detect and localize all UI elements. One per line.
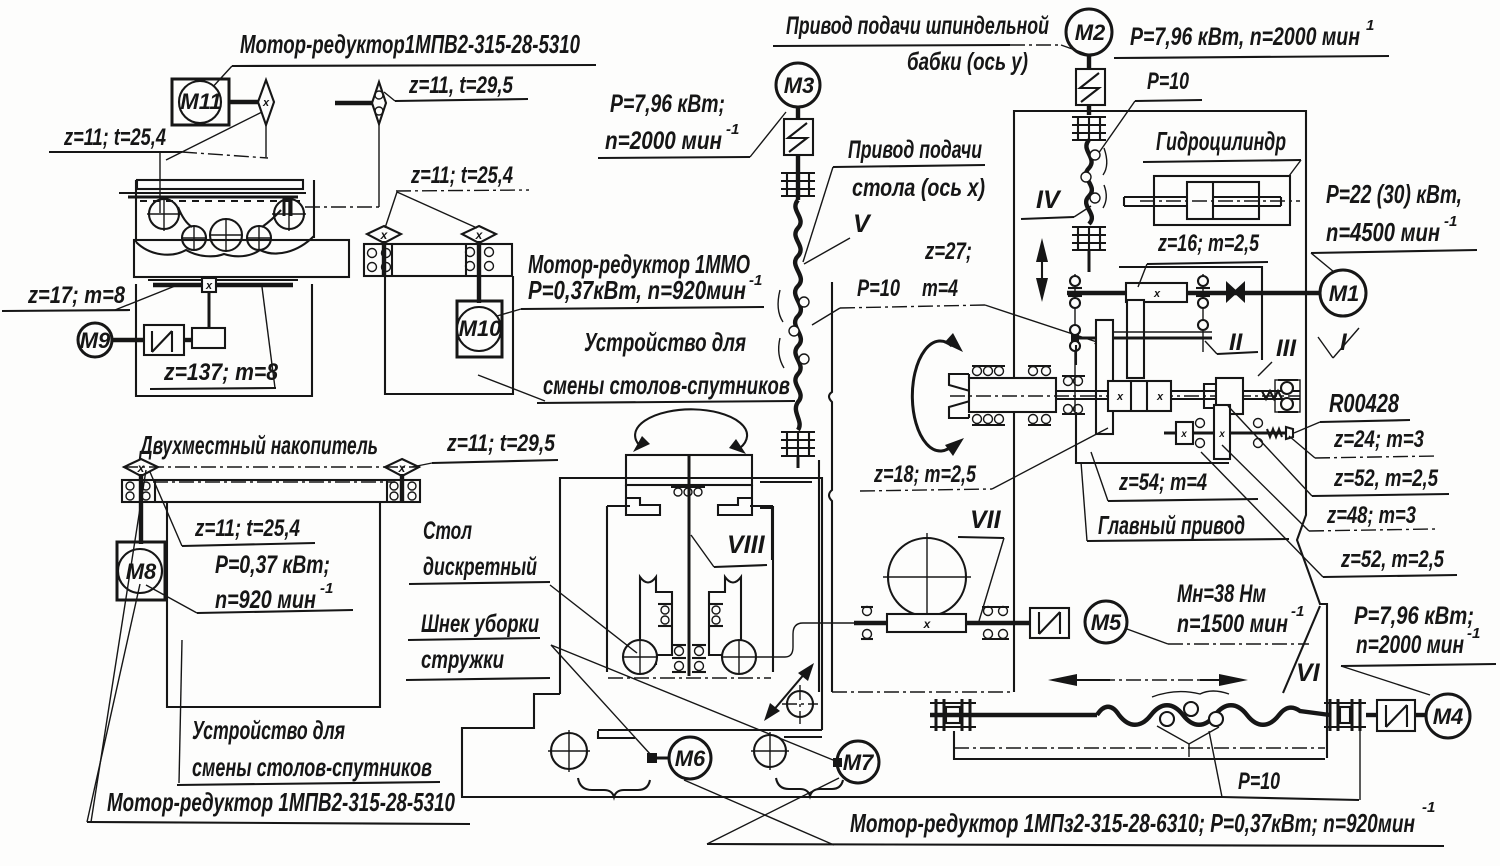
swivel circle with arrow xyxy=(764,663,818,724)
svg-text:z=137; m=8: z=137; m=8 xyxy=(163,359,278,386)
svg-text:1: 1 xyxy=(1366,17,1374,34)
bevel gear pair on shaft I xyxy=(1226,281,1245,303)
underline + leader into cylinder xyxy=(1143,160,1301,162)
svg-text:Р=10: Р=10 xyxy=(1238,768,1280,795)
underline + leader xyxy=(1323,575,1457,577)
underline M2 label xyxy=(1114,56,1389,58)
svg-text:n=2000 мин: n=2000 мин xyxy=(1356,631,1464,659)
underline + leader xyxy=(1108,499,1258,501)
underline xyxy=(177,782,440,785)
svg-text:М4: М4 xyxy=(1433,704,1464,729)
spindle front bearings bottom xyxy=(972,415,1051,426)
svg-text:Мотор-редуктор 1МПВ2-315-28-53: Мотор-редуктор 1МПВ2-315-28-5310 xyxy=(107,787,455,817)
svg-text:-1: -1 xyxy=(1422,799,1435,816)
svg-text:Р=0,37кВт, n=920мин: Р=0,37кВт, n=920мин xyxy=(528,275,746,305)
housing wall with brace (left of spindle) xyxy=(829,282,832,692)
ballscrew IV (wavy) xyxy=(1086,140,1092,224)
accumulator rail xyxy=(122,480,420,502)
pulley P5 (flat diamond) xyxy=(124,459,158,476)
wire right side vertical xyxy=(1359,702,1361,800)
bearing circles shaft III left xyxy=(1196,419,1205,448)
underline + leader xyxy=(1320,420,1410,422)
svg-text:Главный привод: Главный привод xyxy=(1098,510,1245,540)
pallet inner housing xyxy=(607,506,773,672)
ballscrew VI wavy part xyxy=(1097,705,1330,725)
motor M6 xyxy=(669,737,711,779)
leader M7 to bottom text xyxy=(707,778,839,844)
spindle shaft xyxy=(1056,390,1300,392)
bed under screw VI bottom xyxy=(954,731,1325,759)
svg-text:М2: М2 xyxy=(1075,20,1106,45)
auger circle left xyxy=(548,730,590,772)
left pallet wheel xyxy=(623,640,657,674)
svg-text:Р=7,96 кВт;: Р=7,96 кВт; xyxy=(1354,602,1474,630)
svg-text:x: x xyxy=(398,461,407,475)
wire from right wheel to shaft VII xyxy=(756,623,854,657)
svg-text:z=52, m=2,5: z=52, m=2,5 xyxy=(1333,465,1438,492)
underline of top label xyxy=(232,65,596,66)
ballscrew VI shaft straight part xyxy=(930,713,1097,717)
wire M3 shaft down xyxy=(796,107,800,200)
svg-text:Мн=38 Нм: Мн=38 Нм xyxy=(1177,580,1266,608)
svg-text:m=4: m=4 xyxy=(922,275,958,302)
leader nut to P=10 xyxy=(1209,731,1222,797)
VI step outline xyxy=(1283,606,1320,693)
shaft M11 to pulley xyxy=(229,100,258,104)
svg-text:-1: -1 xyxy=(749,272,762,289)
svg-text:z=17; m=8: z=17; m=8 xyxy=(27,282,125,309)
bed under screw VI chain line xyxy=(954,747,1325,749)
end cone shaft III xyxy=(1286,427,1293,439)
leader to pulley P4 xyxy=(397,192,477,228)
motor M7 xyxy=(837,741,879,783)
underline + leader to M1 xyxy=(1311,250,1477,253)
underline xyxy=(49,151,182,153)
vertical double arrow (axis y) xyxy=(1036,238,1048,302)
leader to ball nut xyxy=(812,308,840,325)
svg-text:М1: М1 xyxy=(1329,281,1360,306)
housing wall 2 xyxy=(818,460,820,692)
svg-text:z=11; t=25,4: z=11; t=25,4 xyxy=(194,515,300,542)
gear block on shaft I xyxy=(1126,283,1187,302)
underline + leader to M2 xyxy=(773,45,1010,46)
svg-text:Мотор-редуктор 1МПз2-315-28-63: Мотор-редуктор 1МПз2-315-28-6310; Р=0,37… xyxy=(850,808,1415,838)
motor M11 xyxy=(172,79,229,125)
underline + leader VIII xyxy=(714,565,767,567)
roller r4 xyxy=(209,218,243,252)
spline zigzag shaft III xyxy=(1267,429,1282,437)
VII box chain bottom xyxy=(832,691,1014,693)
svg-text:смены столов-спутников: смены столов-спутников xyxy=(192,752,432,782)
rack under slab xyxy=(148,278,298,292)
underline + leader to M8 xyxy=(197,610,353,613)
screw V lower bearing xyxy=(781,432,815,468)
underline + leader to nut xyxy=(1135,100,1202,101)
svg-text:VII: VII xyxy=(970,506,1002,534)
motor M1 xyxy=(1320,270,1366,316)
spline zigzag on spindle xyxy=(1262,391,1282,399)
rotary table top xyxy=(626,455,752,485)
svg-text:VI: VI xyxy=(1296,659,1321,687)
rail bearings left xyxy=(126,482,150,500)
svg-text:Р=7,96 кВт;: Р=7,96 кВт; xyxy=(610,90,725,118)
svg-text:x: x xyxy=(1116,391,1124,403)
leader to motor M11 xyxy=(210,66,232,90)
pulley P2 (top middle tall diamond) xyxy=(372,82,386,124)
screw IV upper nut bearing xyxy=(1072,117,1106,140)
svg-text:М7: М7 xyxy=(843,750,875,775)
big gear z=54 column xyxy=(1096,320,1113,434)
main column housing xyxy=(1014,111,1327,758)
underline + leader VII xyxy=(958,537,1004,538)
ball nut circles screw VI xyxy=(1160,702,1223,726)
hydrocylinder body xyxy=(1124,176,1300,225)
rail body xyxy=(364,244,512,276)
left screw bearing VI xyxy=(930,699,976,731)
block on shaft VII xyxy=(887,614,966,632)
shaft VII bearings left xyxy=(861,607,873,640)
svg-text:Стол: Стол xyxy=(423,517,472,545)
svg-text:-1: -1 xyxy=(1444,213,1457,230)
svg-text:z=11, t=29,5: z=11, t=29,5 xyxy=(408,72,513,99)
tall gear z=52 on shaft III xyxy=(1214,405,1230,459)
M7 pin xyxy=(833,758,842,767)
underline + leader to left wheel xyxy=(409,582,550,584)
leader to pulley P3 xyxy=(385,192,397,228)
wire rack pinion shaft xyxy=(208,292,211,328)
spindle mid bearings xyxy=(1062,376,1085,414)
svg-text:V: V xyxy=(853,210,872,238)
svg-text:Р=7,96 кВт, n=2000 мин: Р=7,96 кВт, n=2000 мин xyxy=(1130,23,1360,51)
shaft VII xyxy=(854,621,1030,625)
svg-text:М11: М11 xyxy=(180,89,221,114)
svg-text:z=11; t=25,4: z=11; t=25,4 xyxy=(410,162,513,189)
wire coupling to M4 xyxy=(1415,713,1426,717)
underline + leader to rack xyxy=(2,310,130,311)
svg-text:z=52, m=2,5: z=52, m=2,5 xyxy=(1340,546,1444,573)
svg-text:Гидроцилиндр: Гидроцилиндр xyxy=(1156,126,1286,156)
svg-text:n=920 мин: n=920 мин xyxy=(215,586,316,614)
ballscrew V (wavy) xyxy=(795,200,801,430)
bed step right of pallet xyxy=(598,731,822,738)
underline + leader to screw xyxy=(833,165,985,167)
spindle body xyxy=(969,378,1056,412)
coupling I (M9) xyxy=(144,325,184,355)
wire P6 shaft xyxy=(400,474,404,502)
chain line P2 to table xyxy=(305,206,379,208)
wire bearing to coupling xyxy=(1366,713,1377,717)
svg-text:III: III xyxy=(1276,335,1297,362)
svg-text:n=4500 мин: n=4500 мин xyxy=(1326,217,1440,247)
svg-text:x: x xyxy=(137,461,146,475)
underline 2 xyxy=(406,678,550,680)
inner gearbox housing lines xyxy=(1119,267,1262,360)
svg-text:x: x xyxy=(205,280,213,292)
lower gearbox housing xyxy=(136,284,312,396)
leader from pulley P1 down-left to table xyxy=(166,112,262,160)
svg-text:z=16; m=2,5: z=16; m=2,5 xyxy=(1157,230,1259,257)
spindle nose fork xyxy=(949,374,985,418)
leader to M8 xyxy=(87,584,140,822)
motor M2 xyxy=(1066,9,1112,55)
motor M3 xyxy=(776,63,820,107)
underline + leader xyxy=(1147,262,1268,264)
wire pulley P3 shaft xyxy=(382,241,386,276)
gear column z=16 sliding xyxy=(1127,300,1144,378)
belt chain line in rail xyxy=(153,481,395,483)
svg-text:дискретный: дискретный xyxy=(423,553,537,581)
rotation arc around spindle xyxy=(912,333,964,456)
wire pallet center shaft VIII xyxy=(688,455,691,676)
underline xyxy=(150,388,276,389)
svg-text:-1: -1 xyxy=(1467,625,1480,642)
svg-text:Р=0,37 кВт;: Р=0,37 кВт; xyxy=(215,551,330,579)
table housing outline xyxy=(136,180,314,256)
svg-text:смены столов-спутников: смены столов-спутников xyxy=(543,370,790,400)
svg-text:z=48; m=3: z=48; m=3 xyxy=(1326,502,1416,529)
auger circle right xyxy=(751,732,789,770)
vertical lay shaft B with bearings xyxy=(1196,274,1210,352)
pulley P6 (flat diamond) xyxy=(385,459,419,476)
rail bearings right xyxy=(390,482,416,500)
wavy belt over rollers xyxy=(178,207,281,227)
brake B3 xyxy=(784,119,813,155)
svg-text:R00428: R00428 xyxy=(1329,388,1399,418)
leader I (check) xyxy=(1318,337,1333,358)
motor M9 xyxy=(78,323,112,357)
shaft I xyxy=(1067,291,1320,295)
nut bracket arcs xyxy=(1152,691,1229,697)
motor M4 xyxy=(1426,694,1470,738)
chain underline + leaders xyxy=(860,489,992,491)
shaft II xyxy=(1072,337,1097,340)
motor M5 xyxy=(1085,601,1127,643)
wire pulley P1 drop xyxy=(265,125,267,157)
coupling И (M4) xyxy=(1377,700,1415,731)
wire P2 drop xyxy=(378,124,380,207)
ball nut circles screw IV xyxy=(1081,148,1107,208)
leader M6 to bottom text xyxy=(684,780,834,845)
spindle centerline xyxy=(950,395,1300,397)
svg-text:Двухместный накопитель: Двухместный накопитель xyxy=(139,430,378,460)
spindle clutch block xyxy=(1108,381,1171,411)
leader M10 to label xyxy=(497,309,521,316)
motor M8 xyxy=(117,542,165,600)
grinding wheel VII xyxy=(883,533,971,621)
pulley P4 (flat diamond) xyxy=(462,226,496,243)
leader to device label xyxy=(478,375,545,401)
svg-text:VIII: VIII xyxy=(727,531,766,559)
saddle stub lines xyxy=(760,482,812,560)
wire coupling to gear xyxy=(184,338,192,342)
svg-text:z=11; t=25,4: z=11; t=25,4 xyxy=(63,124,166,151)
svg-text:Устройство для: Устройство для xyxy=(584,327,746,357)
leader from M5 to label xyxy=(1127,629,1168,644)
svg-text:n=1500 мин: n=1500 мин xyxy=(1177,610,1288,638)
leader auger to M6 pin xyxy=(551,645,651,755)
thin line under shaft I gears xyxy=(1112,331,1212,333)
chain underline xyxy=(396,190,529,191)
svg-text:x: x xyxy=(1156,391,1164,403)
svg-text:стола (ось x): стола (ось x) xyxy=(852,174,985,202)
pallet-change device housing (left) xyxy=(385,276,513,394)
leader arrow to gear z=27 xyxy=(985,305,1103,344)
svg-text:z=54; m=4: z=54; m=4 xyxy=(1118,469,1207,496)
right pallet wheel xyxy=(722,640,756,674)
accumulator device box xyxy=(167,502,380,707)
rail bearing circles left xyxy=(368,249,391,272)
svg-text:бабки (ось у): бабки (ось у) xyxy=(907,48,1028,76)
svg-text:М5: М5 xyxy=(1091,610,1122,635)
gear block x1 on shaft III xyxy=(1176,422,1193,444)
svg-text:n=2000 мин: n=2000 мин xyxy=(605,127,722,155)
svg-text:-1: -1 xyxy=(1291,603,1304,620)
brake B2 xyxy=(1076,69,1105,105)
svg-text:Привод подачи: Привод подачи xyxy=(848,136,982,164)
svg-text:x: x xyxy=(923,617,932,631)
lower shaft III xyxy=(1164,432,1286,435)
roller r5 xyxy=(246,225,272,251)
underline + leader to M4 xyxy=(1341,664,1496,666)
spindle front bearings top xyxy=(972,366,1051,376)
leader V to screw xyxy=(804,238,850,264)
left channel bearings xyxy=(658,604,672,626)
underline bottom text xyxy=(707,844,1444,846)
svg-text:Устройство для: Устройство для xyxy=(192,715,345,745)
motor M10 xyxy=(457,301,502,357)
underline + leader xyxy=(1087,539,1289,541)
svg-text:x: x xyxy=(1180,429,1187,440)
roller R2 with brush xyxy=(272,197,306,231)
underline + leader xyxy=(432,460,558,463)
belt pulley P1 (tall diamond) xyxy=(258,80,274,125)
wire P5 shaft down to M8 xyxy=(139,474,143,544)
wire pulley P4 shaft to M10 xyxy=(477,241,481,303)
brace under auger left xyxy=(578,778,650,797)
svg-text:Шнек уборки: Шнек уборки xyxy=(421,610,539,638)
svg-text:Р=10: Р=10 xyxy=(1147,68,1189,95)
svg-text:М6: М6 xyxy=(675,746,706,771)
svg-text:-1: -1 xyxy=(320,580,333,597)
right channel bearings xyxy=(709,604,723,626)
pulley P3 (flat diamond) xyxy=(367,226,401,243)
inner housing chain bottom xyxy=(608,677,771,679)
svg-text:Р=22 (30) кВт,: Р=22 (30) кВт, xyxy=(1326,179,1462,209)
svg-text:x: x xyxy=(1153,288,1161,300)
bearing circles shaft III right xyxy=(1254,419,1263,448)
leader vertical to device label xyxy=(179,640,182,783)
wire M2 shaft xyxy=(1087,55,1091,115)
svg-text:x: x xyxy=(380,228,389,242)
roller R1 xyxy=(147,197,181,231)
svg-text:z=11; t=29,5: z=11; t=29,5 xyxy=(446,430,555,457)
right screw bearing VI xyxy=(1324,699,1366,731)
chain underline P=10 xyxy=(840,305,985,308)
center bearing pair xyxy=(671,487,705,496)
underline xyxy=(87,822,470,824)
spindle end bearing in frame xyxy=(1275,380,1300,412)
shaft to pulley P2 xyxy=(335,101,372,105)
underline IV + leader xyxy=(1021,217,1074,219)
shaft VII bearings right xyxy=(982,607,1009,640)
leader II xyxy=(1217,352,1258,354)
roller r3 xyxy=(181,225,207,251)
rail bearing circles right xyxy=(466,248,494,271)
svg-text:z=18; m=2,5: z=18; m=2,5 xyxy=(873,461,976,488)
leader III xyxy=(1258,362,1272,376)
belt line down to table drive xyxy=(159,153,161,213)
underline 1 xyxy=(408,638,540,640)
underline with leader to P2 xyxy=(395,99,528,101)
right C-channel xyxy=(709,577,741,664)
chain line through pulleys xyxy=(123,466,420,468)
svg-text:Р=10: Р=10 xyxy=(857,275,900,302)
chain underline + leader xyxy=(1309,529,1435,531)
brace under auger right xyxy=(776,778,843,796)
leader auger to M7 xyxy=(551,645,838,762)
svg-text:М3: М3 xyxy=(784,73,815,98)
svg-text:z=24; m=3: z=24; m=3 xyxy=(1333,426,1424,453)
screw IV lower bearing xyxy=(1072,227,1106,272)
rotation ellipse arrow (pallet rotary table) xyxy=(633,409,747,454)
chain line to pulley P1 xyxy=(182,152,268,158)
machine bed outline xyxy=(462,694,1222,797)
underline + leader xyxy=(1312,494,1449,496)
left C-channel xyxy=(640,577,672,664)
svg-text:Привод подачи шпиндельной: Привод подачи шпиндельной xyxy=(786,12,1049,40)
gear block on pinion shaft xyxy=(192,328,225,348)
underline + leader to P5 xyxy=(182,543,315,546)
rotary table step details xyxy=(626,485,752,515)
internal slanted line xyxy=(262,287,275,388)
underline P=10 xyxy=(1222,797,1359,800)
svg-text:М10: М10 xyxy=(459,316,503,341)
table top rails xyxy=(119,180,306,201)
underline + leader to brake xyxy=(598,157,750,158)
M6 pin xyxy=(647,753,669,763)
spindle right gear z=52 xyxy=(1204,378,1243,414)
svg-text:x: x xyxy=(262,97,270,109)
svg-text:x: x xyxy=(475,228,484,242)
pallet outer housing xyxy=(560,478,822,730)
svg-text:z=27;: z=27; xyxy=(924,238,972,265)
chain underline + leader xyxy=(1315,456,1435,458)
underline xyxy=(537,401,795,403)
svg-text:стружки: стружки xyxy=(421,646,504,674)
table slab xyxy=(134,240,349,277)
svg-text:Мотор-редуктор1МПВ2-315-28-531: Мотор-редуктор1МПВ2-315-28-5310 xyxy=(240,29,580,59)
horizontal double arrow (axis travel) xyxy=(1048,674,1248,686)
svg-text:-1: -1 xyxy=(726,121,739,138)
ball nut circles on screw V xyxy=(778,290,809,368)
svg-text:IV: IV xyxy=(1036,186,1062,214)
screw nut bearing (upper, axis x) xyxy=(781,173,815,196)
coupling И (M5) xyxy=(1030,608,1069,638)
leader to P5 xyxy=(91,470,146,822)
vertical lay shaft A with bearings xyxy=(1068,274,1082,412)
center shaft bearing pairs bottom xyxy=(672,645,706,672)
underline xyxy=(521,307,764,309)
svg-text:М9: М9 xyxy=(80,328,111,353)
svg-text:x: x xyxy=(1218,429,1225,440)
wire M9 to coupling xyxy=(112,338,144,342)
